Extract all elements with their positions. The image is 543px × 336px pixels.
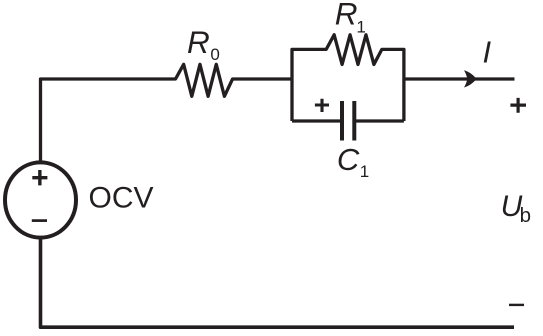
svg-text:1: 1: [356, 17, 365, 36]
svg-text:OCV: OCV: [89, 182, 154, 215]
svg-text:R: R: [335, 0, 358, 32]
svg-text:1: 1: [360, 162, 369, 181]
svg-text:I: I: [483, 34, 492, 69]
svg-text:b: b: [520, 204, 531, 227]
svg-text:0: 0: [210, 45, 219, 64]
svg-text:C: C: [337, 142, 360, 177]
svg-text:R: R: [187, 24, 210, 60]
